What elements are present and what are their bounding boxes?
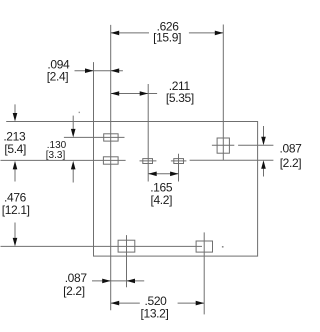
dim .626 line [111, 32, 149, 34]
centerline middle-left small pad (vertical) [147, 84, 149, 182]
dim .087 right bottom arrow [263, 168, 265, 177]
left-edge extension above body [93, 62, 95, 121]
pad A centerline horizontal [140, 160, 157, 162]
pad top-right square [217, 138, 229, 153]
svg-text:[12.1]: [12.1] [2, 203, 30, 217]
dim .087 bottom line [92, 280, 144, 282]
dim .087 right top arrow [263, 126, 265, 138]
dim .211 arrow left [111, 91, 120, 96]
pad bottom-right [196, 241, 212, 252]
dim .520 line [111, 302, 140, 304]
small middle pad B [174, 159, 184, 164]
pad top-left [104, 134, 118, 141]
top-right pad centerline horizontal [212, 144, 234, 146]
pad B centerline horizontal [171, 160, 187, 162]
dim .130 bottom arrow [72, 168, 74, 183]
dim .211 line [111, 93, 157, 95]
svg-text:[4.2]: [4.2] [150, 193, 172, 207]
dim .130 top arrow [72, 116, 74, 130]
dim .087 bottom arrow right-pointing [102, 279, 111, 284]
svg-text:[2.4]: [2.4] [47, 69, 69, 83]
svg-text:[5.4]: [5.4] [4, 142, 26, 156]
dim .094 arrow right-pointing [85, 68, 94, 73]
body outline rectangle [94, 122, 258, 257]
row centerline to right edge [190, 159, 274, 161]
svg-text:[13.2]: [13.2] [141, 306, 169, 320]
centerline bottom-left pad (vertical) [126, 235, 128, 287]
pad bottom-left [118, 240, 135, 252]
pad row2 centerline horizontal + left extension [1, 159, 126, 161]
dim .165 line [148, 173, 178, 175]
top-right pad centerline horizontal extension [238, 144, 273, 146]
svg-text:[5.35]: [5.35] [166, 91, 194, 105]
centerline bottom-right pad (vertical) [203, 232, 205, 314]
centerline top-right pad (vertical) [222, 25, 224, 161]
stray dot lower-right [222, 246, 224, 248]
top edge extension line (left of body) [6, 121, 93, 123]
svg-text:.087: .087 [65, 271, 88, 285]
dim .520 arrow right [196, 301, 205, 306]
centerline middle-right small pad (vertical) [178, 154, 180, 182]
dim .165 arrow right [170, 172, 179, 177]
stray dot upper-left [79, 112, 80, 113]
svg-text:[3.3]: [3.3] [46, 150, 66, 161]
dim .094 line [75, 70, 123, 72]
dim .626 arrow left [111, 31, 120, 36]
dim .476 bottom arrow [14, 223, 16, 239]
bottom pads centerline horizontal [1, 245, 203, 247]
dim .094 arrow left-pointing [111, 68, 120, 73]
dim .213/.476 shared up arrow [14, 168, 16, 182]
dim .626 arrow right [215, 31, 224, 36]
pad row1 centerline horizontal [64, 136, 125, 138]
dim .211 arrow right [140, 91, 149, 96]
pad left row2 [103, 157, 118, 164]
centerline through left pads (vertical, full) [110, 25, 112, 310]
svg-text:[15.9]: [15.9] [153, 30, 181, 44]
dim .213 top arrow [14, 104, 16, 114]
svg-text:.087: .087 [280, 142, 303, 156]
svg-text:[2.2]: [2.2] [63, 284, 85, 298]
small middle pad A [143, 159, 153, 164]
dim .087 bottom arrow left-pointing [127, 279, 136, 284]
dim .520 arrow left [111, 301, 120, 306]
dim .165 arrow left [148, 172, 157, 177]
svg-text:[2.2]: [2.2] [280, 156, 302, 170]
